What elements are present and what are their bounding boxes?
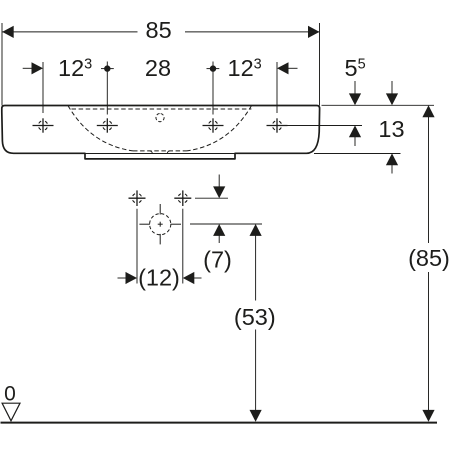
reference line from right fixing hole	[195, 197, 228, 199]
dimension 13: upper arrow pointing down	[391, 81, 393, 94]
dimension 85: right extension line	[319, 23, 321, 106]
tap hole 2	[97, 118, 118, 132]
dimension 85: left extension line	[1, 23, 3, 106]
drain outlet tabs below bowl	[150, 151, 170, 154]
dimension (85): bottom arrowhead pointing down	[422, 410, 434, 422]
floor line	[1, 422, 438, 424]
dimension 5-5: lower arrow pointing up	[349, 125, 361, 137]
dimension 85: left arrowhead	[2, 26, 14, 38]
inner bowl rim (dashed)	[68, 106, 252, 151]
drain hole (dashed circle)	[139, 204, 181, 244]
svg-text:(53): (53)	[234, 304, 276, 330]
reference line: top of basin extended right	[322, 104, 435, 106]
svg-text:13: 13	[378, 116, 404, 142]
svg-text:(7): (7)	[203, 247, 232, 273]
dimension 85: dimension line	[2, 31, 137, 33]
dimension 12-3 / 28 / 12-3 row: extension lines	[42, 62, 44, 113]
dimension 12-3 right: arrow pointing left at fourth tap hole line	[277, 62, 289, 74]
dot terminator at second tap hole line	[101, 68, 114, 70]
basin bottom hidden edge behind apron	[85, 153, 235, 155]
svg-text:28: 28	[145, 55, 171, 81]
fixing hole left	[129, 190, 146, 206]
dimension (12): right arrow pointing left	[183, 272, 195, 284]
dimension 5-5: upper arrow pointing down	[354, 81, 356, 94]
svg-text:(12): (12)	[138, 265, 180, 291]
dimension (85): vertical dimension line	[428, 115, 430, 243]
dimension (85): top arrowhead pointing up	[422, 105, 434, 117]
dimension 13: lower arrow pointing up	[386, 153, 398, 165]
dimension (7): upper arrow pointing down	[218, 175, 220, 188]
dimension (53): top arrowhead pointing up	[250, 224, 262, 236]
svg-text:0: 0	[4, 383, 16, 406]
tap hole 1	[33, 118, 54, 132]
svg-text:85: 85	[146, 17, 172, 43]
datum level triangle	[2, 403, 20, 421]
dot terminator at third tap hole line	[207, 68, 220, 70]
tap hole 3	[203, 118, 224, 132]
svg-text:(85): (85)	[408, 245, 450, 271]
dimension (12): extension line from right fixing hole	[182, 209, 184, 284]
overflow hole	[155, 113, 164, 122]
dimension (53): vertical dimension line	[255, 234, 257, 301]
washbasin outline (front view)	[2, 106, 320, 159]
reference line at drain centre level	[190, 223, 262, 225]
tap hole 4 centreline extended right	[288, 125, 363, 127]
tap hole 4	[267, 118, 288, 132]
dimension (53): bottom arrowhead pointing down	[250, 410, 262, 422]
dimension (7): lower arrow pointing up	[213, 224, 225, 236]
reference line: bottom of basin extended right	[314, 153, 401, 155]
dimension (12): left arrow pointing right	[118, 277, 127, 279]
dimension (12): extension line from left fixing hole	[136, 209, 138, 284]
dimension 85: right arrowhead	[308, 26, 320, 38]
fixing hole right	[174, 190, 191, 206]
dimension 12-3 left: arrow pointing right at first tap hole line	[23, 67, 33, 69]
